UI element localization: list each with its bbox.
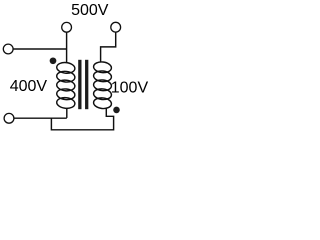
primary winding L1 [56, 62, 75, 110]
svg-text:400V: 400V [10, 78, 48, 95]
wire jog bottom run to secondary bottom [51, 108, 113, 130]
terminal bottom-left [4, 113, 14, 123]
wire from top-right terminal to secondary top [101, 32, 116, 62]
terminal top-left [62, 22, 72, 32]
secondary winding L2 [93, 61, 112, 109]
svg-text:500V: 500V [71, 2, 109, 19]
transformer core bars [80, 60, 87, 109]
wire primary bottom lead [66, 108, 68, 118]
svg-text:100V: 100V [111, 80, 149, 97]
terminal left-middle [3, 44, 13, 54]
wire from bottom-left terminal along bottom [14, 117, 67, 119]
polarity dot secondary [113, 107, 120, 114]
wire from left-middle terminal to primary top node [13, 48, 67, 50]
polarity dot primary [50, 57, 57, 64]
wire from top-left terminal down to primary top [66, 32, 68, 62]
terminal top-right [111, 22, 121, 32]
